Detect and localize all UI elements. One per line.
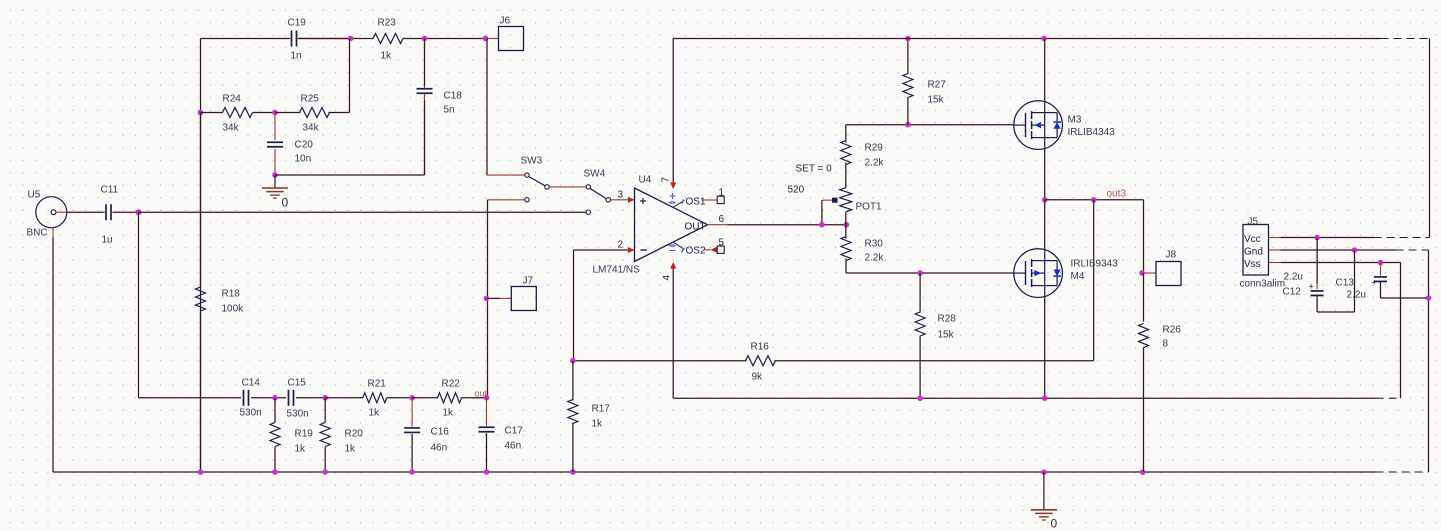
op-amp OS1 pin1	[674, 188, 725, 208]
svg-text:1k: 1k	[592, 419, 604, 430]
node junction at (919.6,272.5)	[917, 270, 923, 276]
node junction bottom x200	[198, 469, 204, 475]
svg-text:C15: C15	[288, 378, 307, 389]
resistor R16	[746, 342, 776, 383]
wire Vss row	[1269, 263, 1401, 399]
op-amp pin7 glyph	[670, 193, 676, 203]
svg-text:34k: 34k	[223, 123, 240, 134]
wire M4 source down	[1044, 297, 1046, 398]
svg-text:2: 2	[618, 240, 624, 251]
wire SW3 common to SW4	[549, 186, 586, 188]
resistor R22	[412, 379, 486, 419]
wire M3 source to out3	[1044, 150, 1046, 200]
svg-text:C12: C12	[1283, 287, 1302, 298]
svg-text:530n: 530n	[240, 408, 262, 419]
node junction top at x350	[348, 36, 354, 42]
op-amp pin7 V+ wire	[661, 39, 677, 190]
svg-text:C13: C13	[1336, 278, 1355, 289]
node junction at (919.6,397.7)	[917, 395, 923, 401]
resistor R29	[841, 125, 885, 188]
svg-text:2.2u: 2.2u	[1347, 290, 1366, 301]
resistor R20	[320, 398, 363, 472]
svg-text:C20: C20	[295, 140, 314, 151]
node junction at (1354,249.5)	[1352, 247, 1358, 253]
svg-text:R30: R30	[865, 239, 884, 250]
wire BNC to C11	[67, 211, 104, 213]
capacitor C13	[1336, 263, 1388, 301]
svg-text:C19: C19	[288, 18, 307, 29]
wire x487 vertical (SW contact to J7/out)	[487, 200, 489, 398]
svg-text:R20: R20	[345, 429, 364, 440]
wire C18 bottom to ground node	[275, 174, 425, 176]
node junction at (1043.4,199.3)	[1042, 197, 1048, 203]
svg-text:+: +	[1309, 282, 1314, 292]
svg-text:1k: 1k	[295, 444, 307, 455]
resistor R25	[275, 94, 339, 134]
node junction at (821.4,224.2)	[819, 222, 825, 228]
connector J7	[484, 276, 537, 311]
svg-text:POT1: POT1	[856, 202, 883, 213]
svg-text:15k: 15k	[928, 95, 945, 106]
node junction at (411.6,397.3)	[409, 395, 415, 401]
svg-text:U4: U4	[639, 175, 652, 186]
wire SW4 to op-amp pin3	[611, 190, 635, 203]
wire x200 vertical left column	[200, 39, 202, 473]
resistor R27	[903, 39, 946, 125]
wire C12 bottom loop	[1317, 250, 1354, 312]
svg-text:R22: R22	[442, 379, 461, 390]
svg-text:R17: R17	[592, 404, 611, 415]
node junction top at x485 (SW3 drop)	[483, 36, 489, 42]
svg-text:R21: R21	[368, 379, 387, 390]
node junction bottom x411	[409, 469, 415, 475]
wire pot to R30	[845, 212, 847, 239]
node junction bottom x486	[484, 469, 490, 475]
svg-text:R24: R24	[223, 94, 242, 105]
wire top rail left segment	[201, 38, 351, 40]
node junction at (324.7,397.3)	[322, 395, 328, 401]
node junction at (1380,262)	[1378, 260, 1384, 266]
switch SW3 lower contact stub	[488, 198, 530, 202]
svg-text:520: 520	[788, 185, 805, 196]
node junction at (1316.6,237)	[1314, 235, 1320, 241]
wire filter row start	[139, 397, 242, 399]
switch SW4 lower contact	[586, 210, 590, 214]
svg-text:IRLIB4343: IRLIB4343	[1068, 127, 1116, 138]
op-amp U4	[593, 175, 708, 276]
svg-text:R16: R16	[751, 342, 770, 353]
svg-text:C17: C17	[505, 426, 524, 437]
svg-text:J8: J8	[1166, 250, 1177, 261]
node junction top rail x907	[905, 36, 911, 42]
svg-text:R23: R23	[378, 18, 397, 29]
label SET = 0	[796, 164, 833, 175]
wire pin4 net y397.7	[673, 397, 1400, 399]
wire C14 to C15	[251, 397, 286, 399]
svg-text:C16: C16	[431, 427, 450, 438]
svg-text:BNC: BNC	[27, 228, 48, 239]
wire main input row y211.7	[139, 211, 587, 213]
capacitor C18	[417, 39, 463, 176]
wire feedback row y360	[574, 360, 1094, 362]
capacitor C11	[101, 185, 119, 246]
node junction at (274.5,397.3)	[272, 395, 278, 401]
wire C15 to R21	[296, 397, 325, 399]
svg-text:C11: C11	[101, 185, 119, 196]
node junction bottom x324	[322, 469, 328, 475]
svg-text:out3: out3	[1107, 189, 1127, 200]
svg-text:SW4: SW4	[584, 169, 606, 180]
svg-text:5n: 5n	[444, 105, 455, 116]
svg-text:7: 7	[661, 177, 672, 183]
net label out	[475, 389, 488, 399]
resistor R19	[270, 398, 313, 472]
svg-text:R25: R25	[301, 94, 320, 105]
switch SW3	[521, 156, 550, 190]
svg-text:1k: 1k	[381, 51, 393, 62]
node junction at (1428,297.5)	[1426, 295, 1432, 301]
svg-text:R27: R27	[928, 80, 947, 91]
svg-text:OS2: OS2	[686, 246, 706, 257]
transistor M4 IRLIB9343	[1014, 200, 1118, 298]
capacitor C19	[288, 18, 307, 62]
wire bottom rail	[53, 298, 1429, 472]
capacitor C14	[240, 378, 262, 419]
node junction at (845.9,224.2)	[844, 222, 850, 228]
svg-text:34k: 34k	[303, 123, 320, 134]
svg-text:10n: 10n	[295, 154, 312, 165]
wire SW3 feed	[487, 39, 525, 176]
resistor R18	[196, 113, 245, 473]
resistor R24	[201, 94, 276, 134]
node junction at (200,112)	[198, 110, 204, 116]
wire C19 to R23	[299, 38, 374, 40]
svg-text:IRLIB9343: IRLIB9343	[1071, 259, 1119, 270]
svg-text:M4: M4	[1071, 271, 1085, 282]
capacitor C12	[1283, 238, 1324, 313]
wire C11 to junction	[114, 211, 139, 213]
svg-text:6: 6	[719, 214, 725, 225]
svg-text:J5: J5	[1248, 217, 1259, 228]
node junction at (274.5,112)	[272, 110, 278, 116]
ground 0 (upper)	[262, 175, 289, 210]
svg-text:1k: 1k	[443, 408, 455, 419]
capacitor C20	[267, 113, 313, 176]
resistor R23	[373, 18, 403, 62]
node junction bottom x274	[272, 469, 278, 475]
wire C13 bottom to gnd net	[1381, 297, 1429, 299]
node junction top at x424 (C18 tap)	[422, 36, 428, 42]
wire OUT row	[728, 224, 847, 226]
wire x138 vertical down to filter row	[138, 212, 140, 398]
svg-text:SW3: SW3	[521, 156, 543, 167]
svg-text:Vcc: Vcc	[1244, 234, 1261, 245]
svg-text:M3: M3	[1068, 115, 1082, 126]
capacitor C17	[479, 398, 524, 472]
svg-text:1: 1	[719, 188, 725, 199]
node junction at (572.4,360.2)	[570, 358, 576, 364]
svg-text:1n: 1n	[291, 51, 302, 62]
svg-text:9k: 9k	[752, 372, 764, 383]
wire Vcc row	[1269, 237, 1430, 239]
op-amp OS2 pin5	[674, 238, 725, 257]
op-amp pin4 glyph	[670, 245, 676, 251]
svg-text:2.2u: 2.2u	[1284, 272, 1303, 283]
op-amp pin4 V- wire	[662, 262, 677, 398]
svg-text:J7: J7	[523, 276, 534, 287]
net label out3	[1107, 189, 1127, 200]
node junction bottom x1043	[1041, 469, 1047, 475]
node junction at (274.5,174.5)	[272, 172, 278, 178]
wire out3 to feedback	[1093, 200, 1095, 361]
svg-text:1k: 1k	[369, 408, 381, 419]
node junction at (486,397.2)	[484, 395, 490, 401]
svg-text:OS1: OS1	[686, 197, 706, 208]
potentiometer POT1	[822, 188, 882, 225]
resistor R21	[325, 379, 412, 419]
resistor R26	[1139, 273, 1182, 472]
node junction at (1093.2,199.3)	[1091, 197, 1097, 203]
wire M4 gate row y272	[846, 272, 1014, 274]
svg-text:46n: 46n	[431, 443, 448, 454]
svg-text:U5: U5	[28, 190, 41, 201]
svg-text:2.2k: 2.2k	[865, 253, 885, 264]
resistor R28	[915, 273, 956, 398]
svg-text:530n: 530n	[287, 409, 309, 420]
svg-text:3: 3	[618, 190, 624, 201]
label 520	[788, 185, 805, 196]
svg-text:+: +	[1372, 278, 1377, 288]
svg-text:8: 8	[1163, 339, 1169, 350]
svg-text:SET = 0: SET = 0	[796, 164, 833, 175]
node junction bottom x572	[570, 469, 576, 475]
svg-text:R18: R18	[222, 289, 241, 300]
svg-text:15k: 15k	[938, 330, 955, 341]
switch SW4	[584, 169, 611, 203]
svg-text:R29: R29	[865, 143, 884, 154]
node junction top rail x1043	[1041, 36, 1047, 42]
svg-text:LM741/NS: LM741/NS	[593, 265, 641, 276]
wire top rail right	[673, 39, 1429, 238]
svg-text:0: 0	[1051, 517, 1058, 531]
svg-text:Vss: Vss	[1244, 259, 1261, 270]
op-amp pin2 wire (inverting)	[574, 240, 635, 361]
wire Gnd row	[1269, 250, 1429, 298]
node junction at (907.4,124.2)	[905, 122, 911, 128]
svg-text:1k: 1k	[345, 444, 357, 455]
svg-text:R28: R28	[938, 314, 957, 325]
resistor R30	[841, 237, 884, 274]
svg-text:1u: 1u	[102, 235, 113, 246]
connector J8	[1139, 250, 1181, 286]
svg-text:4: 4	[662, 275, 673, 281]
connector U5 BNC	[27, 190, 67, 239]
wire gate row y124	[846, 124, 1014, 126]
wire out3 row	[1045, 200, 1144, 273]
svg-text:OUT: OUT	[685, 222, 706, 233]
ground 0 (bottom)	[1031, 472, 1058, 530]
svg-text:conn3alim: conn3alim	[1240, 279, 1286, 290]
svg-text:J6: J6	[500, 16, 511, 27]
op-amp OUT pin6	[685, 214, 728, 233]
resistor R17	[568, 361, 610, 472]
svg-text:46n: 46n	[505, 441, 522, 452]
svg-text:5: 5	[719, 238, 725, 249]
svg-text:R26: R26	[1163, 325, 1182, 336]
transistor M3 IRLIB4343	[1014, 39, 1115, 150]
node junction at (138,211.7)	[136, 209, 142, 215]
connector J5	[1240, 217, 1286, 290]
svg-text:0: 0	[282, 196, 289, 210]
svg-text:C18: C18	[444, 91, 463, 102]
svg-text:100k: 100k	[222, 304, 245, 315]
wire BNC shield down	[52, 238, 54, 473]
wire R23 to J6	[403, 38, 486, 40]
connector J6	[488, 16, 524, 51]
svg-text:R19: R19	[295, 429, 314, 440]
svg-text:Gnd: Gnd	[1244, 247, 1263, 258]
svg-text:2.2k: 2.2k	[865, 158, 885, 169]
wire x349 vertical (R25 right to top rail)	[339, 39, 350, 113]
capacitor C15	[287, 378, 309, 420]
node junction at (1043.4,397.7)	[1042, 395, 1048, 401]
capacitor C16	[404, 398, 449, 472]
node junction bottom x1142	[1140, 469, 1146, 475]
svg-text:C14: C14	[242, 378, 261, 389]
